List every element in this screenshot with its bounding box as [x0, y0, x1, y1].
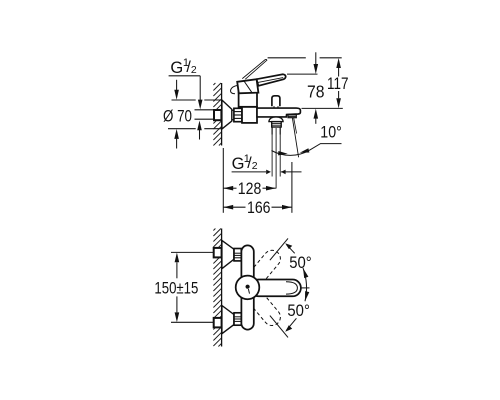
spout bottom ref line [302, 107, 343, 109]
wall face line [221, 83, 223, 146]
union nut [234, 108, 242, 121]
svg-text:50°: 50° [287, 302, 310, 320]
shower outlet bell [269, 117, 283, 122]
union squares [214, 248, 222, 258]
wall hatch [213, 229, 221, 347]
117 line segments [338, 68, 340, 77]
knurl ring [272, 122, 282, 127]
top ref line (handle raised) [268, 57, 306, 59]
labels top view [163, 57, 349, 217]
handle dot [246, 285, 250, 289]
angle arcs [303, 268, 307, 301]
lever tip tick [301, 287, 310, 289]
150 arrows [175, 253, 180, 263]
svg-text:150±15: 150±15 [154, 279, 198, 297]
body capsule [241, 245, 253, 329]
wall union square [214, 110, 221, 120]
G1/2 bottom arrows [266, 170, 271, 175]
svg-text:G: G [170, 59, 183, 77]
phantom raised handle [242, 59, 267, 79]
Ø70 top arrow (down) [174, 90, 179, 100]
body upper (cartridge) [239, 92, 257, 106]
svg-text:2: 2 [191, 64, 197, 76]
dashed phantom levers [245, 247, 284, 329]
lever cap back curl [231, 85, 239, 94]
78 top arrow (down) [314, 64, 319, 74]
150±15 ext lines [171, 251, 213, 253]
50deg leader arrows [285, 243, 292, 249]
128 dim line [223, 187, 236, 189]
svg-text:117: 117 [327, 75, 349, 93]
outlet pipe walls [271, 127, 273, 135]
50deg leaders [287, 245, 295, 254]
vertical extension lines [222, 148, 224, 213]
valve body [242, 107, 257, 123]
svg-text:Ø 70: Ø 70 [163, 107, 192, 125]
spout [257, 108, 300, 117]
escutcheon cones [222, 240, 234, 268]
water stream [292, 118, 298, 157]
union nuts [234, 249, 241, 261]
50deg radial lines [270, 238, 288, 260]
mirror arrow (up) [197, 121, 202, 131]
117 bottom arrow (down) [336, 98, 341, 108]
supply pipe in wall [195, 109, 214, 111]
svg-text:G: G [232, 155, 245, 173]
G1/2 top label underline + leader [169, 75, 201, 77]
150±15 dim line segments [176, 262, 178, 278]
78 arrows tails [315, 52, 317, 64]
svg-text:10°: 10° [320, 123, 342, 141]
aerator [288, 114, 296, 117]
lever [250, 280, 301, 297]
10deg arc arrows [278, 151, 288, 155]
arrowheads top view [174, 58, 341, 210]
Ø70 arrows tails [176, 80, 178, 90]
G1/2 bottom underline + arrows tails [232, 171, 267, 173]
pivot circle [236, 276, 260, 300]
lever tip ref line [287, 73, 318, 75]
166 dim line [223, 206, 245, 208]
Ø70 extension lines [172, 99, 196, 101]
117 top arrow (up) [336, 58, 341, 68]
wall face line [221, 229, 223, 347]
G1/2 leader arrow (down) [198, 100, 203, 110]
svg-text:128: 128 [238, 180, 261, 198]
diverter knob [272, 96, 280, 106]
svg-text:2: 2 [252, 160, 258, 172]
166 arrows [223, 205, 233, 210]
escutcheon cone [222, 100, 232, 129]
svg-text:50°: 50° [289, 254, 312, 272]
10 deg arc + leader [272, 150, 310, 155]
Ø70 bottom arrow (up) [174, 129, 179, 139]
svg-text:78: 78 [307, 82, 325, 102]
78 bottom arrow (up) [314, 109, 319, 119]
wall hatch [213, 83, 221, 146]
128 arrows [223, 186, 233, 191]
lever cap [237, 79, 258, 93]
arc end arrows [303, 268, 308, 278]
svg-text:166: 166 [247, 199, 271, 217]
lever arm [257, 74, 286, 86]
